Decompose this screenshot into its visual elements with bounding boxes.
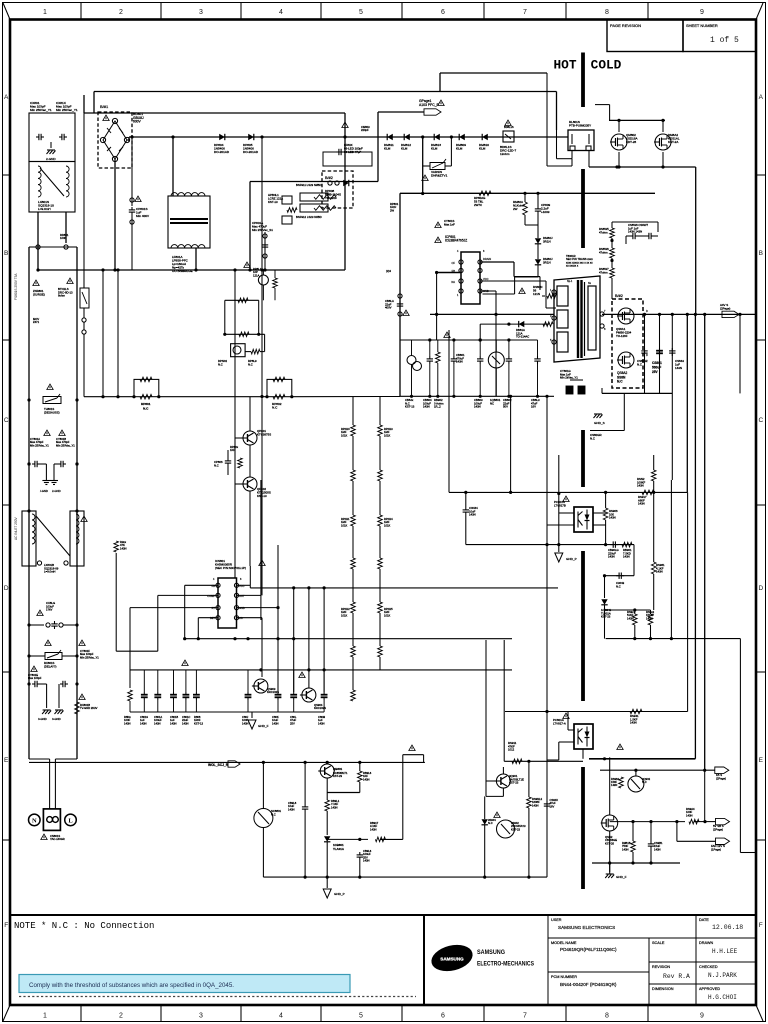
transistor QB801S	[488, 340, 504, 405]
wire y493 rail	[449, 491, 687, 494]
choke LX801B boxes	[22, 511, 84, 574]
svg-text:143N: 143N	[363, 859, 369, 863]
wire ics det	[198, 618, 218, 639]
label B#1	[100, 104, 109, 109]
svg-text:CHECKED: CHECKED	[699, 965, 718, 969]
svg-text:QB801: QB801	[333, 767, 343, 771]
svg-text:3: 3	[199, 9, 203, 16]
wire ics out	[237, 595, 261, 620]
svg-text:KTC3875S: KTC3875S	[257, 432, 271, 436]
diode DM811	[384, 134, 394, 151]
ground 2-GND emi	[46, 142, 56, 161]
svg-text:25V: 25V	[290, 721, 295, 725]
title model cell	[551, 941, 617, 952]
svg-text:Np-1: Np-1	[567, 280, 573, 283]
wire y544 rail	[466, 543, 634, 546]
wire y877 rail	[263, 876, 547, 879]
svg-text:143N: 143N	[474, 405, 481, 409]
svg-text:ELECTRO-MECHANICS: ELECTRO-MECHANICS	[477, 961, 534, 968]
transformer T8001R	[552, 254, 604, 362]
svg-text:KLM: KLM	[479, 147, 486, 151]
svg-text:BSF911 LS23 N#BD: BSF911 LS23 N#BD	[296, 183, 321, 187]
wire y120 rail	[595, 105, 665, 132]
svg-text:101K: 101K	[384, 523, 390, 527]
wire rail y393	[602, 388, 672, 393]
svg-text:SHEET NUMBER: SHEET NUMBER	[686, 23, 718, 28]
capacitor CB802	[503, 340, 512, 409]
wire y573 loop	[603, 545, 634, 589]
svg-text:TO-214AC: TO-214AC	[516, 335, 529, 339]
svg-text:YAC-140GR: YAC-140GR	[50, 837, 65, 841]
svg-text:1R_2: 1R_2	[434, 405, 441, 409]
svg-text:KST-23: KST-23	[511, 827, 520, 831]
svg-text:NOTE * N.C : No Connection: NOTE * N.C : No Connection	[14, 921, 154, 931]
svg-text:B: B	[4, 250, 8, 257]
wire ics fb	[185, 585, 218, 638]
label cy801s	[435, 219, 455, 228]
wire icb drain	[480, 262, 540, 277]
transistor QP feed	[253, 267, 277, 300]
svg-text:FS801S 250V T5A: FS801S 250V T5A	[14, 273, 18, 300]
resistor RSN2 label	[637, 455, 656, 492]
res RP檢	[230, 445, 242, 468]
capacitor CS90X	[544, 797, 558, 809]
svg-text:BD8L1S: BD8L1S	[504, 125, 514, 129]
svg-text:Rev R.A: Rev R.A	[663, 973, 690, 980]
svg-text:KST-2A: KST-2A	[668, 140, 678, 144]
capacitor CP806	[214, 450, 231, 475]
wire rp cp join	[525, 224, 538, 226]
svg-text:6: 6	[441, 1013, 445, 1020]
svg-text:(DELAY?): (DELAY?)	[44, 664, 56, 668]
title user cell	[551, 918, 615, 930]
wire x504 vertical	[503, 640, 505, 761]
samsung electro-mechanics wordmark	[477, 949, 534, 968]
loop RP801 A	[84, 344, 160, 411]
svg-text:3: 3	[199, 1013, 203, 1020]
svg-text:101K: 101K	[384, 433, 390, 437]
svg-text:D: D	[758, 585, 763, 592]
svg-text:47ohm: 47ohm	[599, 270, 608, 274]
svg-text:(2Page): (2Page)	[720, 306, 730, 310]
warning y120	[438, 100, 444, 106]
capacitor CB801	[451, 340, 465, 396]
svg-text:(2Page): (2Page)	[716, 776, 726, 780]
wire x705 lower	[704, 770, 706, 821]
resistor RP80A	[513, 192, 527, 225]
choke LX801S box	[29, 162, 75, 213]
capacitor CX801 box	[29, 113, 75, 162]
bypass B#2 dashed box	[322, 171, 353, 208]
mosfet QS9N2	[601, 757, 618, 874]
svg-text:B/#2: B/#2	[325, 176, 333, 180]
svg-text:DO-201AD: DO-201AD	[243, 150, 259, 154]
svg-text:1?kV: 1?kV	[46, 608, 53, 612]
svg-text:Z471: Z471	[33, 320, 40, 324]
svg-text:N.C: N.C	[488, 821, 493, 825]
svg-text:25V: 25V	[652, 370, 659, 374]
wire primary rail y314	[430, 313, 554, 316]
svg-text:B: B	[759, 250, 763, 257]
wire ladder right	[75, 247, 78, 759]
transistor QP801	[241, 429, 271, 445]
svg-text:N.C: N.C	[214, 463, 219, 467]
column ticks	[81, 3, 648, 1023]
capacitor C0N44	[463, 492, 479, 544]
wire x324 vertical	[323, 588, 325, 692]
note text	[14, 921, 154, 931]
transformer LX801S	[38, 166, 69, 211]
transistor QS904	[300, 688, 326, 710]
svg-text:560uF: 560uF	[652, 366, 661, 370]
svg-text:N.C: N.C	[218, 362, 223, 366]
svg-text:CS801: CS801	[652, 361, 662, 365]
svg-text:(SEC P/N:S0C701L1P): (SEC P/N:S0C701L1P)	[215, 566, 246, 570]
svg-text:1012: 1012	[508, 748, 515, 752]
svg-text:86-LED 47pF: 86-LED 47pF	[344, 150, 361, 154]
resistor RS9x7	[627, 610, 637, 639]
svg-text:SAMSUNG: SAMSUNG	[477, 949, 505, 956]
capacitor CB8LA	[385, 282, 403, 316]
svg-text:TO-126F: TO-126F	[616, 334, 628, 338]
loop RP801 B	[265, 377, 293, 410]
svg-text:FB: FB	[212, 584, 216, 588]
wire opto2 wires	[547, 712, 574, 761]
svg-text:16V: 16V	[531, 405, 536, 409]
wire y758 rail	[589, 757, 695, 760]
svg-text:400V: 400V	[385, 306, 392, 310]
svg-text:PTB-PU8M205Y: PTB-PU8M205Y	[569, 124, 591, 128]
svg-text:143N: 143N	[611, 783, 617, 787]
svg-text:0R1N: 0R1N	[543, 261, 551, 265]
capacitor CX8LG	[29, 601, 77, 629]
label ZNR801	[33, 280, 45, 296]
svg-text:PCM NUMBER: PCM NUMBER	[551, 975, 577, 979]
svg-text:Min 250Vac_Y1: Min 250Vac_Y1	[56, 443, 75, 447]
svg-text:1: 1	[43, 1013, 47, 1020]
wire x704 vertical	[704, 314, 706, 770]
capacitor CX81X	[56, 101, 78, 140]
caps bank verticals	[645, 314, 673, 480]
wire y340 bus	[400, 338, 538, 341]
output tag 5VSB	[713, 818, 730, 831]
wire x486 vertical	[485, 640, 487, 796]
svg-text:(SURGE): (SURGE)	[33, 292, 45, 296]
wire x262 vertical	[260, 135, 263, 595]
wire qb801 em	[327, 778, 360, 800]
svg-text:ICE3BR4765JZ: ICE3BR4765JZ	[445, 239, 467, 243]
svg-text:16V: 16V	[550, 804, 555, 808]
svg-text:143N: 143N	[120, 546, 126, 550]
wire x510 vertical	[509, 395, 512, 493]
svg-text:N.C: N.C	[617, 380, 623, 384]
diode TL431	[601, 576, 612, 639]
svg-text:7: 7	[523, 9, 527, 16]
jumper circles	[29, 245, 77, 249]
resistor BD8L1S	[500, 120, 516, 156]
svg-text:N.C: N.C	[642, 780, 647, 784]
wire x547 vertical	[545, 395, 548, 877]
wire zener loop	[327, 755, 423, 842]
svg-text:NC: NC	[490, 401, 494, 405]
wire rail y711	[505, 710, 688, 713]
optocoupler PC801S	[554, 496, 593, 532]
diode DM809	[456, 134, 466, 151]
diode DP805	[243, 134, 259, 154]
wire x293 vertical	[293, 588, 295, 692]
svg-text:220pF: 220pF	[361, 128, 369, 132]
wire icb gnd	[480, 291, 496, 396]
wire primary top	[546, 281, 556, 308]
thermistor ICB801S circ	[254, 762, 282, 877]
svg-text:C: C	[758, 417, 763, 424]
svg-text:143N: 143N	[331, 805, 337, 809]
label left col a	[60, 233, 69, 240]
wire y761 rail	[504, 741, 583, 764]
wire rail y670	[130, 668, 512, 671]
wire x308 vertical	[308, 588, 310, 688]
pfc_p page tag	[419, 99, 441, 115]
svg-text:D: D	[646, 354, 648, 357]
title checked cell	[699, 965, 737, 979]
svg-text:1: 1	[43, 9, 47, 16]
resistor RS917 inline	[638, 490, 654, 506]
svg-text:GND_S: GND_S	[594, 421, 605, 425]
wire dm80 down	[483, 265, 539, 294]
svg-text:LTV817B: LTV817B	[554, 503, 566, 507]
thermistor RT801 degauss	[43, 384, 61, 414]
resistor RB902	[434, 340, 444, 409]
svg-text:KLM: KLM	[431, 147, 438, 151]
wire y821 rail	[610, 807, 716, 824]
wire opto2 tail	[583, 749, 589, 759]
ic ICP801 label	[435, 235, 467, 243]
svg-text:L=9.0mH: L=9.0mH	[44, 570, 55, 574]
svg-text:143N: 143N	[170, 721, 176, 725]
gnd GND_F right	[605, 863, 626, 879]
svg-text:2W7C: 2W7C	[474, 203, 482, 207]
svg-text:(2Page): (2Page)	[713, 827, 723, 831]
svg-text:Min 250Vac_Y1: Min 250Vac_Y1	[30, 443, 49, 447]
title revision cell	[652, 965, 690, 980]
diode DM810	[479, 134, 489, 151]
svg-text:2: 2	[119, 9, 123, 16]
optocoupler PC801A	[553, 713, 593, 749]
output tag A4V	[720, 303, 756, 318]
svg-text:143N: 143N	[532, 803, 538, 807]
wire relay out rail	[589, 165, 696, 168]
caps row labels	[124, 715, 326, 725]
svg-text:KST-23: KST-23	[601, 615, 611, 619]
gnd GND_F mid	[248, 720, 269, 729]
wire icp box top	[400, 191, 655, 396]
wire relay bottom	[547, 73, 589, 167]
wire comp loop	[116, 553, 158, 651]
wire x84 mid	[83, 113, 85, 288]
svg-text:143N: 143N	[370, 827, 376, 831]
wire ladder bottom	[29, 759, 77, 809]
inductor LF801A	[168, 193, 210, 273]
wire fan loop	[677, 822, 716, 842]
svg-text:GND_P: GND_P	[566, 557, 577, 561]
resistor R comp	[114, 540, 127, 552]
varistor RV801S loop	[421, 135, 453, 195]
wire main pfc rail	[129, 136, 568, 138]
svg-text:SAMSUNG ELECTRONICS: SAMSUNG ELECTRONICS	[558, 925, 615, 930]
svg-text:143N: 143N	[622, 847, 628, 851]
resistor RS9x2b	[646, 610, 655, 639]
resistor RB9L1	[325, 799, 340, 835]
svg-text:12.06.18: 12.06.18	[712, 924, 743, 931]
svg-text:E: E	[759, 757, 764, 764]
title date cell	[699, 918, 743, 931]
svg-text:SAMSUNG: SAMSUNG	[440, 957, 464, 962]
svg-text:GND_F: GND_F	[258, 724, 269, 728]
mosfet QM802	[610, 133, 638, 169]
svg-text:REVISION: REVISION	[652, 965, 670, 969]
pin numbers T8001R	[550, 280, 606, 342]
svg-text:KLM: KLM	[384, 147, 391, 151]
svg-text:5: 5	[359, 9, 363, 16]
resistor RB901	[622, 542, 634, 558]
wire x558 vertical	[557, 455, 560, 545]
title block grid	[424, 915, 756, 1005]
wire y324 diode	[479, 321, 553, 342]
svg-text:N.C: N.C	[272, 406, 278, 410]
wire y863 rail	[592, 861, 680, 864]
svg-text:Min 2kVac_Y1: Min 2kVac_Y1	[560, 376, 578, 380]
resistor RX801B	[75, 694, 98, 714]
wire x687 loop	[687, 492, 689, 711]
wire qs901 loop	[486, 795, 503, 797]
svg-text:KRC102S: KRC102S	[267, 690, 279, 694]
wire x118 vertical	[116, 268, 119, 396]
svg-text:COLD: COLD	[591, 58, 622, 73]
note separator line	[10, 914, 424, 916]
svg-text:143N: 143N	[608, 555, 615, 559]
svg-text:N.C: N.C	[590, 436, 595, 440]
wire opto1 wires	[547, 513, 606, 525]
wire vcc rail	[250, 585, 558, 589]
svg-text:APPROVED: APPROVED	[699, 987, 720, 991]
svg-text:USER: USER	[551, 918, 562, 922]
svg-text:101K: 101K	[384, 613, 390, 617]
svg-text:HOT: HOT	[553, 58, 576, 73]
svg-text:DNR&ZTV1: DNR&ZTV1	[431, 174, 448, 178]
svg-text:121A: 121A	[253, 273, 259, 277]
svg-text:VCC: VCC	[239, 584, 245, 588]
svg-text:SCALE: SCALE	[652, 941, 665, 945]
resistor BTN1LS	[58, 278, 89, 308]
svg-text:143N: 143N	[363, 777, 369, 781]
svg-text:KST-13: KST-13	[194, 721, 203, 725]
svg-text:143N: 143N	[630, 721, 637, 725]
mosfet QS8A2	[617, 352, 634, 384]
svg-text:GND_F: GND_F	[616, 875, 627, 879]
label qs8 pins	[646, 310, 648, 357]
svg-text:A: A	[759, 94, 764, 101]
wire y770 rail	[600, 769, 715, 772]
mosfet DP802	[218, 334, 265, 366]
wire rail y638 A	[183, 637, 512, 640]
mosfet DM8A2	[654, 133, 680, 169]
svg-text:143N: 143N	[637, 484, 644, 488]
wire ladder top	[29, 246, 77, 248]
svg-text:8ohm: 8ohm	[58, 294, 66, 298]
svg-text:Min 250Vac_Y1: Min 250Vac_Y1	[56, 108, 78, 112]
capacitor CB90LG	[608, 541, 619, 558]
rotated AC INLET text	[14, 517, 18, 540]
svg-text:N.C: N.C	[248, 362, 253, 366]
row ticks	[3, 175, 766, 840]
wire relay bypass rail	[248, 182, 378, 272]
caps row y696	[128, 670, 328, 712]
resistor RS962	[611, 770, 623, 788]
resistor RS941 inline	[630, 709, 642, 724]
wire pfc_p arrow line	[378, 112, 424, 182]
gnd GND_P bottom	[323, 877, 344, 898]
mosfet QS8A1	[616, 308, 634, 338]
wire y300 sub	[225, 298, 259, 334]
wire x740 down	[740, 639, 756, 853]
svg-text:143N: 143N	[638, 502, 645, 506]
svg-text:2: 2	[119, 1013, 123, 1020]
wire y73 relay feed	[440, 73, 547, 92]
svg-text:143N: 143N	[423, 405, 430, 409]
jumpers x84	[82, 308, 86, 344]
svg-text:+1003: +1003	[541, 210, 550, 214]
svg-text:0R1N: 0R1N	[543, 240, 551, 244]
svg-text:DRAWN: DRAWN	[699, 941, 713, 945]
wire rail y396	[400, 395, 554, 398]
capacitor CS804Z	[637, 348, 648, 366]
svg-text:(DEGAUSS): (DEGAUSS)	[44, 410, 60, 414]
wire rs8w chain	[610, 222, 658, 299]
wire ics vcc	[237, 566, 251, 585]
ic ICS801 label	[215, 559, 246, 570]
svg-text:Min 250Vac_S1: Min 250Vac_S1	[252, 228, 273, 232]
wire ics comp	[158, 595, 218, 651]
capacitor CY801A	[27, 430, 50, 493]
wire rail y638 B	[606, 480, 741, 640]
svg-text:2-GND: 2-GND	[52, 489, 61, 493]
svg-text:Max 1nF: Max 1nF	[444, 222, 455, 226]
capacitor CS843	[669, 348, 684, 370]
ic ICS801 box	[207, 578, 245, 628]
resistor RS80N	[533, 277, 557, 299]
wire ics cs	[237, 617, 263, 619]
resistor RS8W6	[599, 247, 614, 258]
svg-text:N.C: N.C	[616, 584, 621, 588]
svg-text:Comply with the threshold of s: Comply with the threshold of substances …	[29, 982, 234, 989]
svg-text:PAGE REVISION: PAGE REVISION	[610, 23, 641, 28]
svg-text:DO-201AD: DO-201AD	[214, 150, 230, 154]
svg-text:KST-23: KST-23	[333, 774, 342, 778]
resistor RS906	[603, 492, 618, 544]
svg-text:VCC: VCC	[483, 277, 489, 281]
ic ICB801 box	[451, 252, 491, 304]
capacitor CB9L6	[357, 839, 372, 877]
label icm labels	[504, 125, 514, 129]
svg-text:(1Page): (1Page)	[711, 847, 721, 851]
svg-text:BSF912 LS23 N#BD: BSF912 LS23 N#BD	[296, 215, 322, 219]
svg-text:/-GND: /-GND	[40, 489, 48, 493]
wire x695 down	[695, 167, 697, 314]
bridge B/D1 dashed box	[98, 112, 132, 168]
svg-text:143N: 143N	[627, 616, 633, 620]
svg-text:AC INLET 250V: AC INLET 250V	[14, 517, 18, 540]
rotated fuse text	[14, 273, 18, 300]
